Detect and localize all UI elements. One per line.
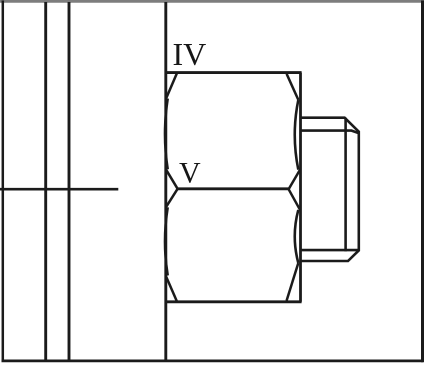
- hex chamfer bottom-left: [166, 277, 177, 302]
- hex head bottom line: [165, 300, 302, 303]
- hex face arc bottom-right: [295, 210, 299, 263]
- border right: [421, 1, 424, 363]
- hex face arc bottom-left: [165, 207, 168, 275]
- wire vertical line B (washer right edge): [68, 2, 71, 361]
- boss inner vertical edge: [344, 118, 347, 252]
- hex head top line: [165, 71, 302, 74]
- border bottom: [2, 359, 424, 362]
- border top (gray): [0, 0, 424, 3]
- hex chamfer mid-right lower: [289, 189, 300, 210]
- boss inner top line: [301, 131, 359, 134]
- hex head right edge vertical: [299, 73, 302, 302]
- boss inner bottom line: [301, 249, 359, 252]
- hex chamfer top-left: [166, 73, 177, 98]
- svg-text:IV: IV: [173, 36, 207, 72]
- boss outline (small square end at right): [301, 118, 359, 261]
- svg-text:V: V: [179, 156, 201, 189]
- hex face arc top-right: [295, 100, 299, 170]
- centerline horizontal left: [0, 188, 118, 191]
- wire vertical line A (washer left edge): [44, 2, 47, 361]
- hex chamfer mid-left upper: [166, 170, 177, 189]
- hex chamfer top-right: [287, 74, 299, 100]
- hex chamfer mid-right upper: [289, 170, 300, 189]
- border left: [2, 1, 5, 362]
- wire flange face vertical line: [164, 2, 167, 361]
- hex chamfer bottom-right: [287, 263, 299, 301]
- hex chamfer mid-left lower: [166, 189, 177, 207]
- hex head middle line: [177, 187, 288, 190]
- hex face arc top-left: [165, 99, 168, 170]
